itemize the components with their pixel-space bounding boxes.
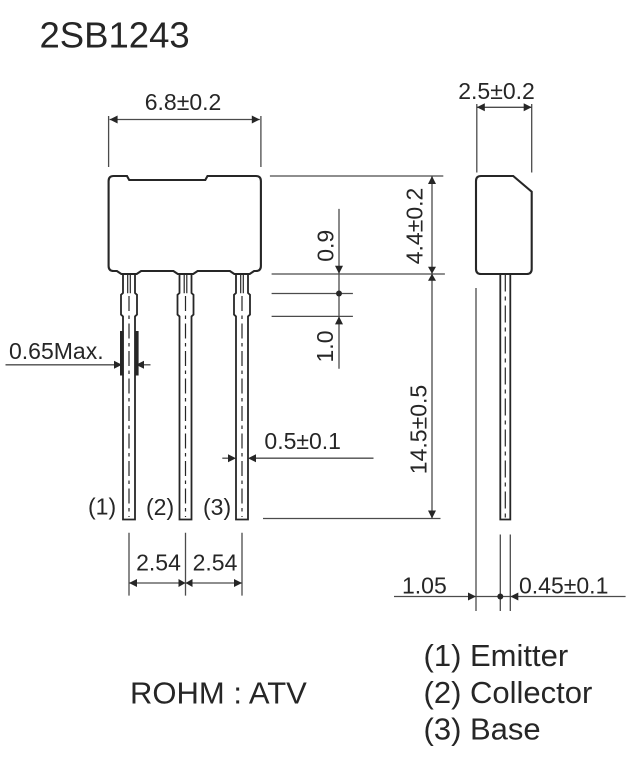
svg-text:14.5±0.5: 14.5±0.5 [406,385,432,474]
svg-text:(3) Base: (3) Base [424,712,541,747]
svg-text:1.05: 1.05 [402,573,447,599]
svg-text:(3): (3) [203,494,231,520]
svg-text:0.45±0.1: 0.45±0.1 [519,573,608,599]
svg-text:(1) Emitter: (1) Emitter [424,638,569,673]
svg-text:(1): (1) [88,494,116,520]
svg-text:2.5±0.2: 2.5±0.2 [458,78,535,104]
svg-text:2.54: 2.54 [136,550,181,576]
svg-text:2.54: 2.54 [193,550,238,576]
svg-text:0.5±0.1: 0.5±0.1 [264,428,341,454]
svg-text:(2) Collector: (2) Collector [424,675,593,710]
svg-text:0.9: 0.9 [313,230,339,262]
svg-text:0.65Max.: 0.65Max. [9,338,104,364]
svg-text:2SB1243: 2SB1243 [40,15,190,56]
svg-text:6.8±0.2: 6.8±0.2 [145,89,222,115]
svg-text:4.4±0.2: 4.4±0.2 [402,188,428,265]
svg-text:(2): (2) [146,494,174,520]
svg-text:ROHM : ATV: ROHM : ATV [130,676,307,711]
svg-text:1.0: 1.0 [312,331,338,363]
